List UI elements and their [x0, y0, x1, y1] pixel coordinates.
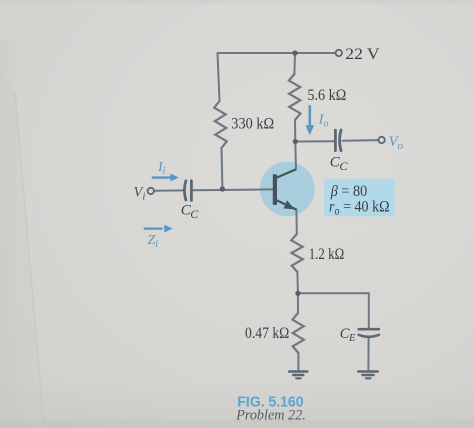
capacitor CC input plates — [184, 181, 191, 201]
arrow Zi — [144, 225, 173, 233]
resistor 0.47 kOhm — [293, 313, 304, 353]
node collector junction — [293, 139, 298, 144]
page crease — [0, 70, 45, 428]
svg-text:0.47 kΩ: 0.47 kΩ — [245, 325, 289, 342]
wire top rail — [218, 52, 336, 54]
ground right — [358, 372, 377, 379]
svg-text:330 kΩ: 330 kΩ — [231, 115, 274, 132]
terminal Vi — [148, 188, 154, 194]
resistor 330 kOhm — [214, 101, 227, 148]
svg-text:1.2 kΩ: 1.2 kΩ — [309, 246, 345, 263]
svg-text:5.6 kΩ: 5.6 kΩ — [307, 87, 346, 104]
wire 0.47k upper — [297, 293, 299, 313]
resistor 1.2 kOhm — [291, 234, 303, 272]
transistor Q1 body — [260, 162, 315, 217]
capacitor CC output plates — [335, 130, 341, 151]
wire emitter down — [295, 210, 297, 234]
capacitor CE plates — [359, 329, 379, 337]
svg-text:β = 80: β = 80 — [330, 183, 367, 200]
node emitter junction — [295, 291, 300, 296]
arrow Io — [306, 105, 315, 135]
wire CE branch upper — [368, 293, 370, 328]
transistor Q1 internals — [275, 169, 297, 209]
wire emitter node — [296, 272, 299, 293]
terminal Vo — [378, 137, 384, 143]
wire collector to transistor — [294, 142, 297, 170]
node base junction — [220, 186, 225, 191]
beta box — [324, 179, 395, 217]
wire input to base — [154, 189, 184, 191]
wire collector node up — [294, 120, 296, 142]
terminal 22V — [336, 50, 342, 56]
wire bottom horizontal — [298, 292, 369, 294]
ground left — [289, 372, 307, 379]
wire left branch lower — [221, 148, 224, 189]
resistor 5.6 kOhm — [289, 74, 301, 120]
wire CE to ground — [367, 337, 369, 371]
arrow Ii — [152, 174, 179, 182]
svg-text:Problem 22.: Problem 22. — [235, 407, 306, 424]
wire 5.6k top stub — [293, 53, 296, 74]
wire 0.47k to ground — [297, 353, 299, 371]
node top junction — [292, 50, 297, 55]
wire left branch upper — [218, 53, 220, 101]
wire collector output — [295, 140, 334, 142]
svg-text:22 V: 22 V — [345, 46, 380, 63]
